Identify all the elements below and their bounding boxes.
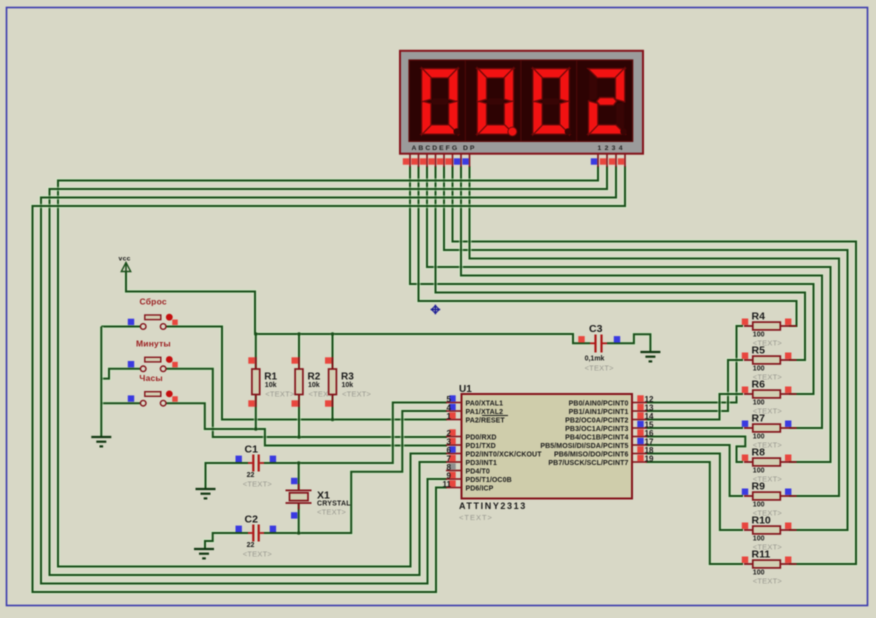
resistor R9 100 <box>742 481 797 518</box>
svg-text:Сброс: Сброс <box>140 297 167 307</box>
wire X1 bottom branch <box>297 503 301 533</box>
wire net MIN (Минуты to U1 pin 2) <box>166 369 447 437</box>
wire net DIG4 (display common 4 to U1 pin 11) <box>33 166 626 592</box>
svg-text:R9: R9 <box>752 481 766 493</box>
junction R3/RESET <box>331 418 335 422</box>
wire net HOUR (Часы to U1 pin 3) <box>166 403 447 445</box>
svg-text:Минуты: Минуты <box>136 339 171 349</box>
wire U1 pin14 to R6 <box>646 394 743 420</box>
svg-text:PB5/MOSI/DI/SDA/PCINT5: PB5/MOSI/DI/SDA/PCINT5 <box>540 443 628 450</box>
wire U1 pin19 to R11 <box>646 462 743 564</box>
svg-text:PB6/MISO/DO/PCINT6: PB6/MISO/DO/PCINT6 <box>554 451 629 458</box>
wire VCC branch to R1 top <box>254 334 258 370</box>
svg-text:22: 22 <box>247 542 255 549</box>
svg-text:11: 11 <box>443 480 452 489</box>
svg-text:PB3/OC1A/PCINT3: PB3/OC1A/PCINT3 <box>565 426 628 433</box>
wire gnd rail for buttons <box>99 327 103 438</box>
power vcc <box>119 256 131 292</box>
wire VCC branch to R2 top <box>297 334 301 370</box>
wire U1 pin16 to R8 <box>646 437 745 463</box>
svg-text:<TEXT>: <TEXT> <box>585 364 615 373</box>
svg-text:PD1/TXD: PD1/TXD <box>466 443 496 450</box>
wire net XTAL2 (C2/X1 bottom to U1 pin 4) <box>264 411 447 533</box>
resistor R11 100 <box>742 549 797 586</box>
wire R1 bottom to HOUR net <box>254 394 258 429</box>
capacitor C2 22 <box>236 514 277 559</box>
svg-text:R10: R10 <box>752 515 771 527</box>
svg-text:10k: 10k <box>265 382 277 389</box>
wire net DIG2 (display common 2 to U1 pin 7) <box>50 166 608 575</box>
svg-text:100: 100 <box>753 332 765 339</box>
svg-text:vcc: vcc <box>119 256 131 263</box>
svg-text:0,1mk: 0,1mk <box>585 356 605 363</box>
junction X1/C2 <box>297 531 301 535</box>
wire U1 pin17 to R9 <box>646 445 743 496</box>
wire net SEG-B (display B to resistor) <box>419 166 797 326</box>
svg-text:PA1/XTAL2: PA1/XTAL2 <box>466 409 504 416</box>
svg-text:PD4/T0: PD4/T0 <box>466 468 490 475</box>
wire C1 left to ground <box>206 463 249 489</box>
junction VCC/R1 <box>254 332 258 336</box>
junction X1/C1 <box>297 461 301 465</box>
svg-text:<TEXT>: <TEXT> <box>317 508 347 517</box>
svg-text:C1: C1 <box>245 444 259 456</box>
wire net SEG-DP (display DP to resistor) <box>470 166 840 496</box>
svg-text:10k: 10k <box>308 382 320 389</box>
svg-text:1234: 1234 <box>598 145 626 152</box>
origin marker <box>431 305 441 315</box>
svg-text:PD0/RXD: PD0/RXD <box>466 434 497 441</box>
wire net XTAL1 (C1/X1 top to U1 pin 5) <box>264 403 447 464</box>
svg-text:U1: U1 <box>459 384 472 395</box>
svg-text:R4: R4 <box>752 311 766 323</box>
op-amp U1 microcontroller ATTINY2313 <box>443 384 654 522</box>
resistor R2 10k <box>292 357 339 407</box>
resistor R7 100 <box>742 413 797 450</box>
wire net DIG1 (display common 1 to U1 pin 6) <box>58 166 598 567</box>
resistor R8 100 <box>742 447 797 484</box>
svg-text:PB2/OC0A/PCINT2: PB2/OC0A/PCINT2 <box>565 417 628 424</box>
svg-text:PD2/INT0/XCK/CKOUT: PD2/INT0/XCK/CKOUT <box>466 451 543 458</box>
resistor R1 10k <box>248 357 295 407</box>
svg-text:PD5/T1/OC0B: PD5/T1/OC0B <box>466 477 512 484</box>
wire X1 top branch <box>297 463 301 490</box>
wire net SEG-D (display D to resistor) <box>436 166 806 360</box>
svg-text:ATTINY2313: ATTINY2313 <box>459 501 527 511</box>
svg-text:PD3/INT1: PD3/INT1 <box>466 460 498 467</box>
push button Минуты <box>128 339 178 372</box>
svg-text:PA2/RESET: PA2/RESET <box>466 417 506 424</box>
wire Минуты left to gnd rail <box>101 369 140 379</box>
wire net DIG3 (display common 3 to U1 pin 9) <box>41 166 616 584</box>
svg-text:CRYSTAL: CRYSTAL <box>317 501 351 508</box>
resistor R5 100 <box>742 345 797 382</box>
junction VCC/R3 <box>331 332 335 336</box>
svg-text:<TEXT>: <TEXT> <box>243 480 273 489</box>
svg-text:Часы: Часы <box>139 373 163 383</box>
svg-text:PB4/OC1B/PCINT4: PB4/OC1B/PCINT4 <box>565 434 628 441</box>
svg-text:100: 100 <box>753 468 765 475</box>
capacitor C3 0,1mk <box>578 323 620 373</box>
wire VCC branch to R3 top <box>330 334 334 370</box>
crystal X1 CRYSTAL <box>286 478 352 519</box>
wire R3 bottom to RESET net <box>330 394 334 420</box>
ground (C3) <box>640 352 660 361</box>
capacitor C1 22 <box>236 444 277 489</box>
svg-text:R11: R11 <box>752 549 771 561</box>
push button Часы <box>128 373 178 406</box>
wire Сброс left to gnd rail <box>101 324 140 328</box>
svg-text:R8: R8 <box>752 447 766 459</box>
svg-text:<TEXT>: <TEXT> <box>342 390 372 399</box>
svg-text:22: 22 <box>247 472 255 479</box>
resistor R10 100 <box>742 515 797 552</box>
svg-text:C2: C2 <box>245 514 259 526</box>
svg-text:100: 100 <box>753 536 765 543</box>
svg-text:100: 100 <box>753 400 765 407</box>
wire net SEG-A (display A to resistor) <box>410 166 814 394</box>
junction R2/MIN <box>297 435 301 439</box>
svg-text:100: 100 <box>753 366 765 373</box>
wire U1 pin15 to R7 <box>646 426 743 430</box>
svg-text:1: 1 <box>447 412 452 421</box>
svg-text:R7: R7 <box>752 413 766 425</box>
svg-text:PA0/XTAL1: PA0/XTAL1 <box>466 400 504 407</box>
wire U1 pin12 to R4 <box>646 326 743 403</box>
svg-text:<TEXT>: <TEXT> <box>459 513 493 522</box>
wire C2 left to ground <box>205 533 248 549</box>
svg-text:100: 100 <box>753 434 765 441</box>
resistor R6 100 <box>742 379 797 416</box>
wire net C3 to ground <box>607 334 650 352</box>
ground (C1) <box>196 489 216 498</box>
push button Сброс <box>128 297 178 330</box>
svg-text:R5: R5 <box>752 345 766 357</box>
svg-text:19: 19 <box>645 455 654 464</box>
wire net SEG-C (display C to resistor) <box>427 166 831 462</box>
junction R1/HOUR <box>254 427 258 431</box>
svg-text:PB1/AIN1/PCINT1: PB1/AIN1/PCINT1 <box>569 409 629 416</box>
svg-text:C3: C3 <box>589 323 603 335</box>
resistor R4 100 <box>742 311 797 348</box>
ground (buttons) <box>91 437 111 446</box>
resistor R3 10k <box>325 357 372 407</box>
svg-text:PB7/USCK/SCL/PCINT7: PB7/USCK/SCL/PCINT7 <box>548 460 628 467</box>
wire net RESET (Сброс to U1 pin 1) <box>166 327 447 420</box>
svg-text:PB0/AIN0/PCINT0: PB0/AIN0/PCINT0 <box>569 400 629 407</box>
wire net VCC (vcc symbol to pull-up resistors and C3) <box>126 272 590 343</box>
wire net SEG-G (display G to resistor) <box>461 166 822 428</box>
svg-text:<TEXT>: <TEXT> <box>753 577 783 586</box>
svg-text:ABCDEFG DP: ABCDEFG DP <box>412 145 477 152</box>
wire Часы left to gnd rail <box>101 401 140 405</box>
junction VCC/R2 <box>297 332 301 336</box>
7-segment display module showing 00.02 <box>400 51 643 167</box>
svg-text:10k: 10k <box>342 382 354 389</box>
wire U1 pin18 to R10 <box>646 454 743 531</box>
ground (C2) <box>194 549 214 558</box>
wire R2 bottom to MIN net <box>297 394 301 437</box>
svg-text:<TEXT>: <TEXT> <box>265 390 295 399</box>
wire net SEG-F (display F to resistor) <box>453 166 857 564</box>
wire U1 pin13 to R5 <box>646 360 743 411</box>
wire net SEG-E (display E to resistor) <box>444 166 848 530</box>
svg-text:PD6/ICP: PD6/ICP <box>466 485 494 492</box>
svg-text:R6: R6 <box>752 379 766 391</box>
svg-text:100: 100 <box>753 502 765 509</box>
svg-text:100: 100 <box>753 570 765 577</box>
svg-text:<TEXT>: <TEXT> <box>243 550 273 559</box>
